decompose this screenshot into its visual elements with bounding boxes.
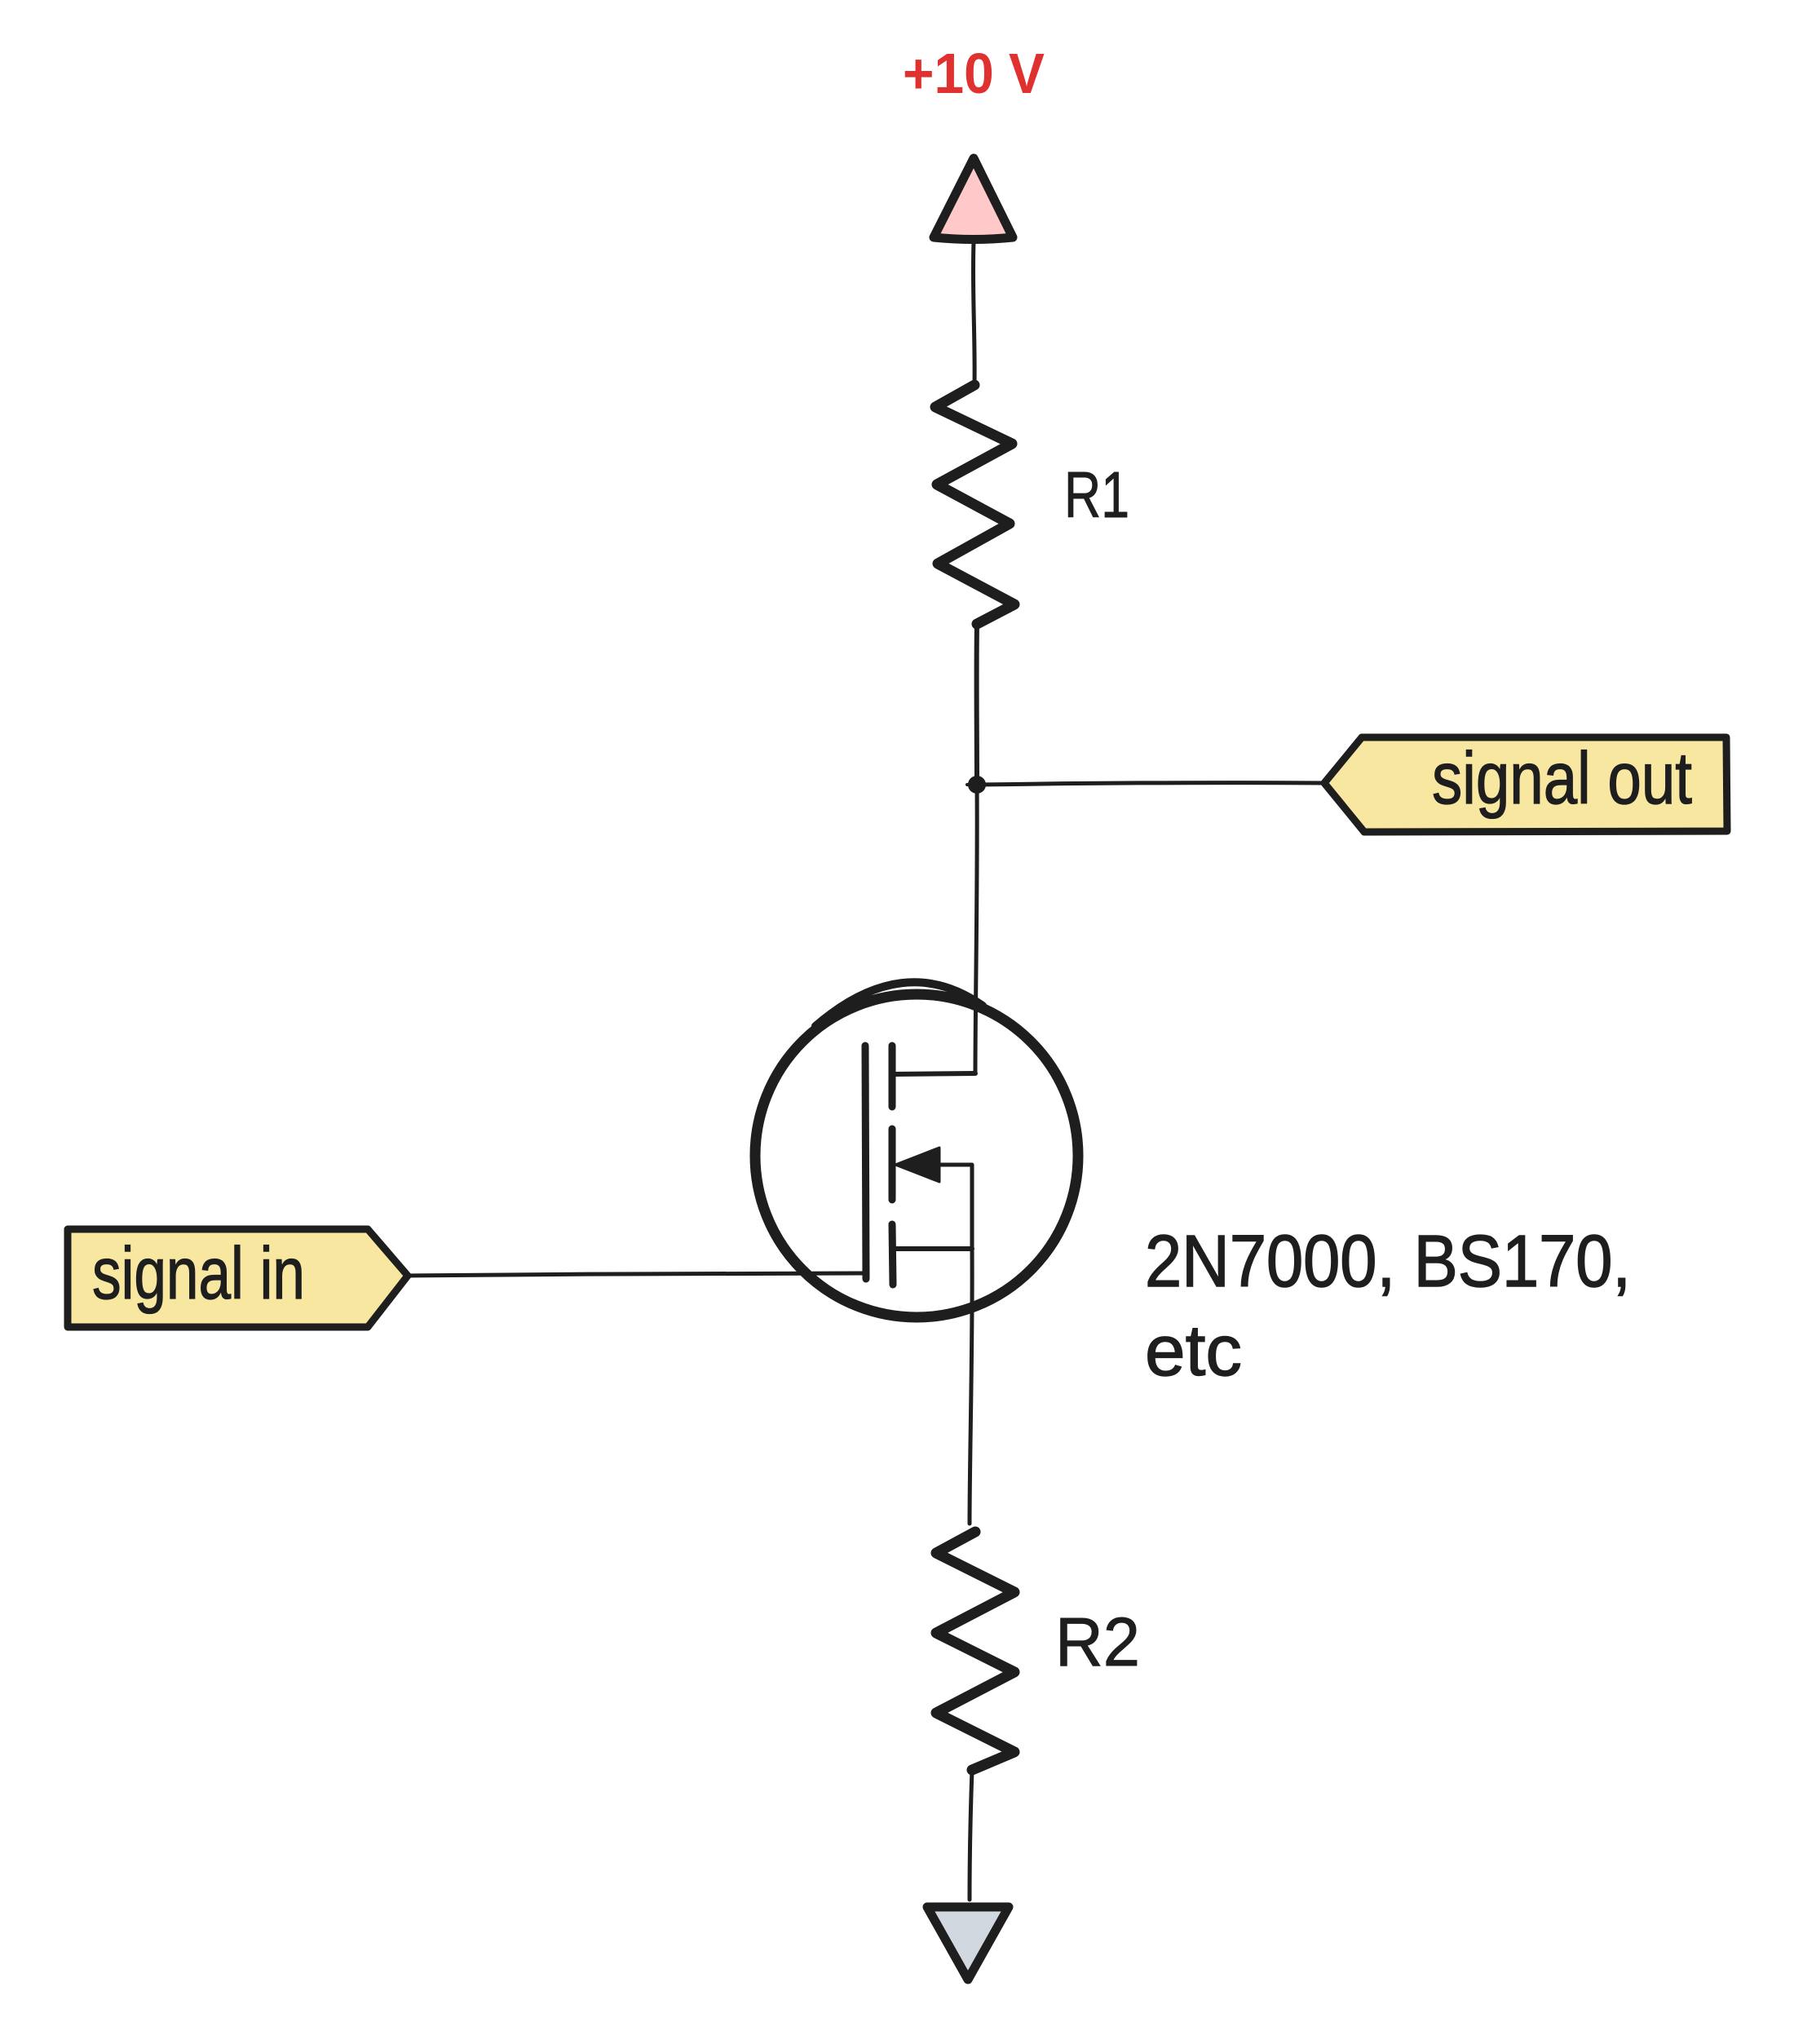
wire: +10V to R1 — [973, 241, 974, 385]
wire: R2 to ground — [970, 1770, 972, 1900]
resistor R2 — [936, 1532, 1014, 1770]
net flag: signal in — [68, 1229, 408, 1327]
wire: node to signal out flag — [977, 783, 1324, 785]
power symbol +10V (triangle) — [934, 158, 1013, 240]
svg-text:+10 V: +10 V — [903, 42, 1045, 105]
svg-text:etc: etc — [1145, 1310, 1242, 1391]
text signal in — [92, 1233, 305, 1315]
junction node (drain / signal out) — [967, 776, 988, 794]
wire: node to Q1 drain — [975, 785, 977, 1073]
resistor R1 — [935, 385, 1014, 624]
wire: signal in to Q1 gate — [408, 1273, 862, 1276]
ground symbol — [927, 1907, 1009, 1980]
svg-text:signal in: signal in — [92, 1233, 305, 1315]
svg-text:R1: R1 — [1064, 458, 1129, 531]
transistor Q1 body circle — [755, 982, 1078, 1317]
Q1 body arrow — [895, 1148, 972, 1249]
svg-text:signal out: signal out — [1432, 738, 1692, 820]
text signal out — [1432, 738, 1692, 820]
wire: Q1 source to R2 — [970, 1249, 972, 1524]
Q1 drain link — [894, 1073, 975, 1074]
part text 2N7000, BS170, — [1145, 1221, 1631, 1303]
Q1 source link — [894, 1246, 972, 1251]
part text etc — [1145, 1310, 1242, 1391]
svg-text:2N7000, BS170,: 2N7000, BS170, — [1145, 1221, 1631, 1303]
net label +10 V — [903, 42, 1045, 105]
wire: R1 to output node — [974, 624, 979, 785]
Q1 channel dashes — [892, 1046, 893, 1285]
svg-text:R2: R2 — [1055, 1604, 1140, 1680]
net flag: signal out — [1324, 737, 1727, 832]
label R2 — [1055, 1604, 1140, 1680]
label R1 — [1064, 458, 1129, 531]
Q1 gate bar — [865, 1046, 866, 1279]
